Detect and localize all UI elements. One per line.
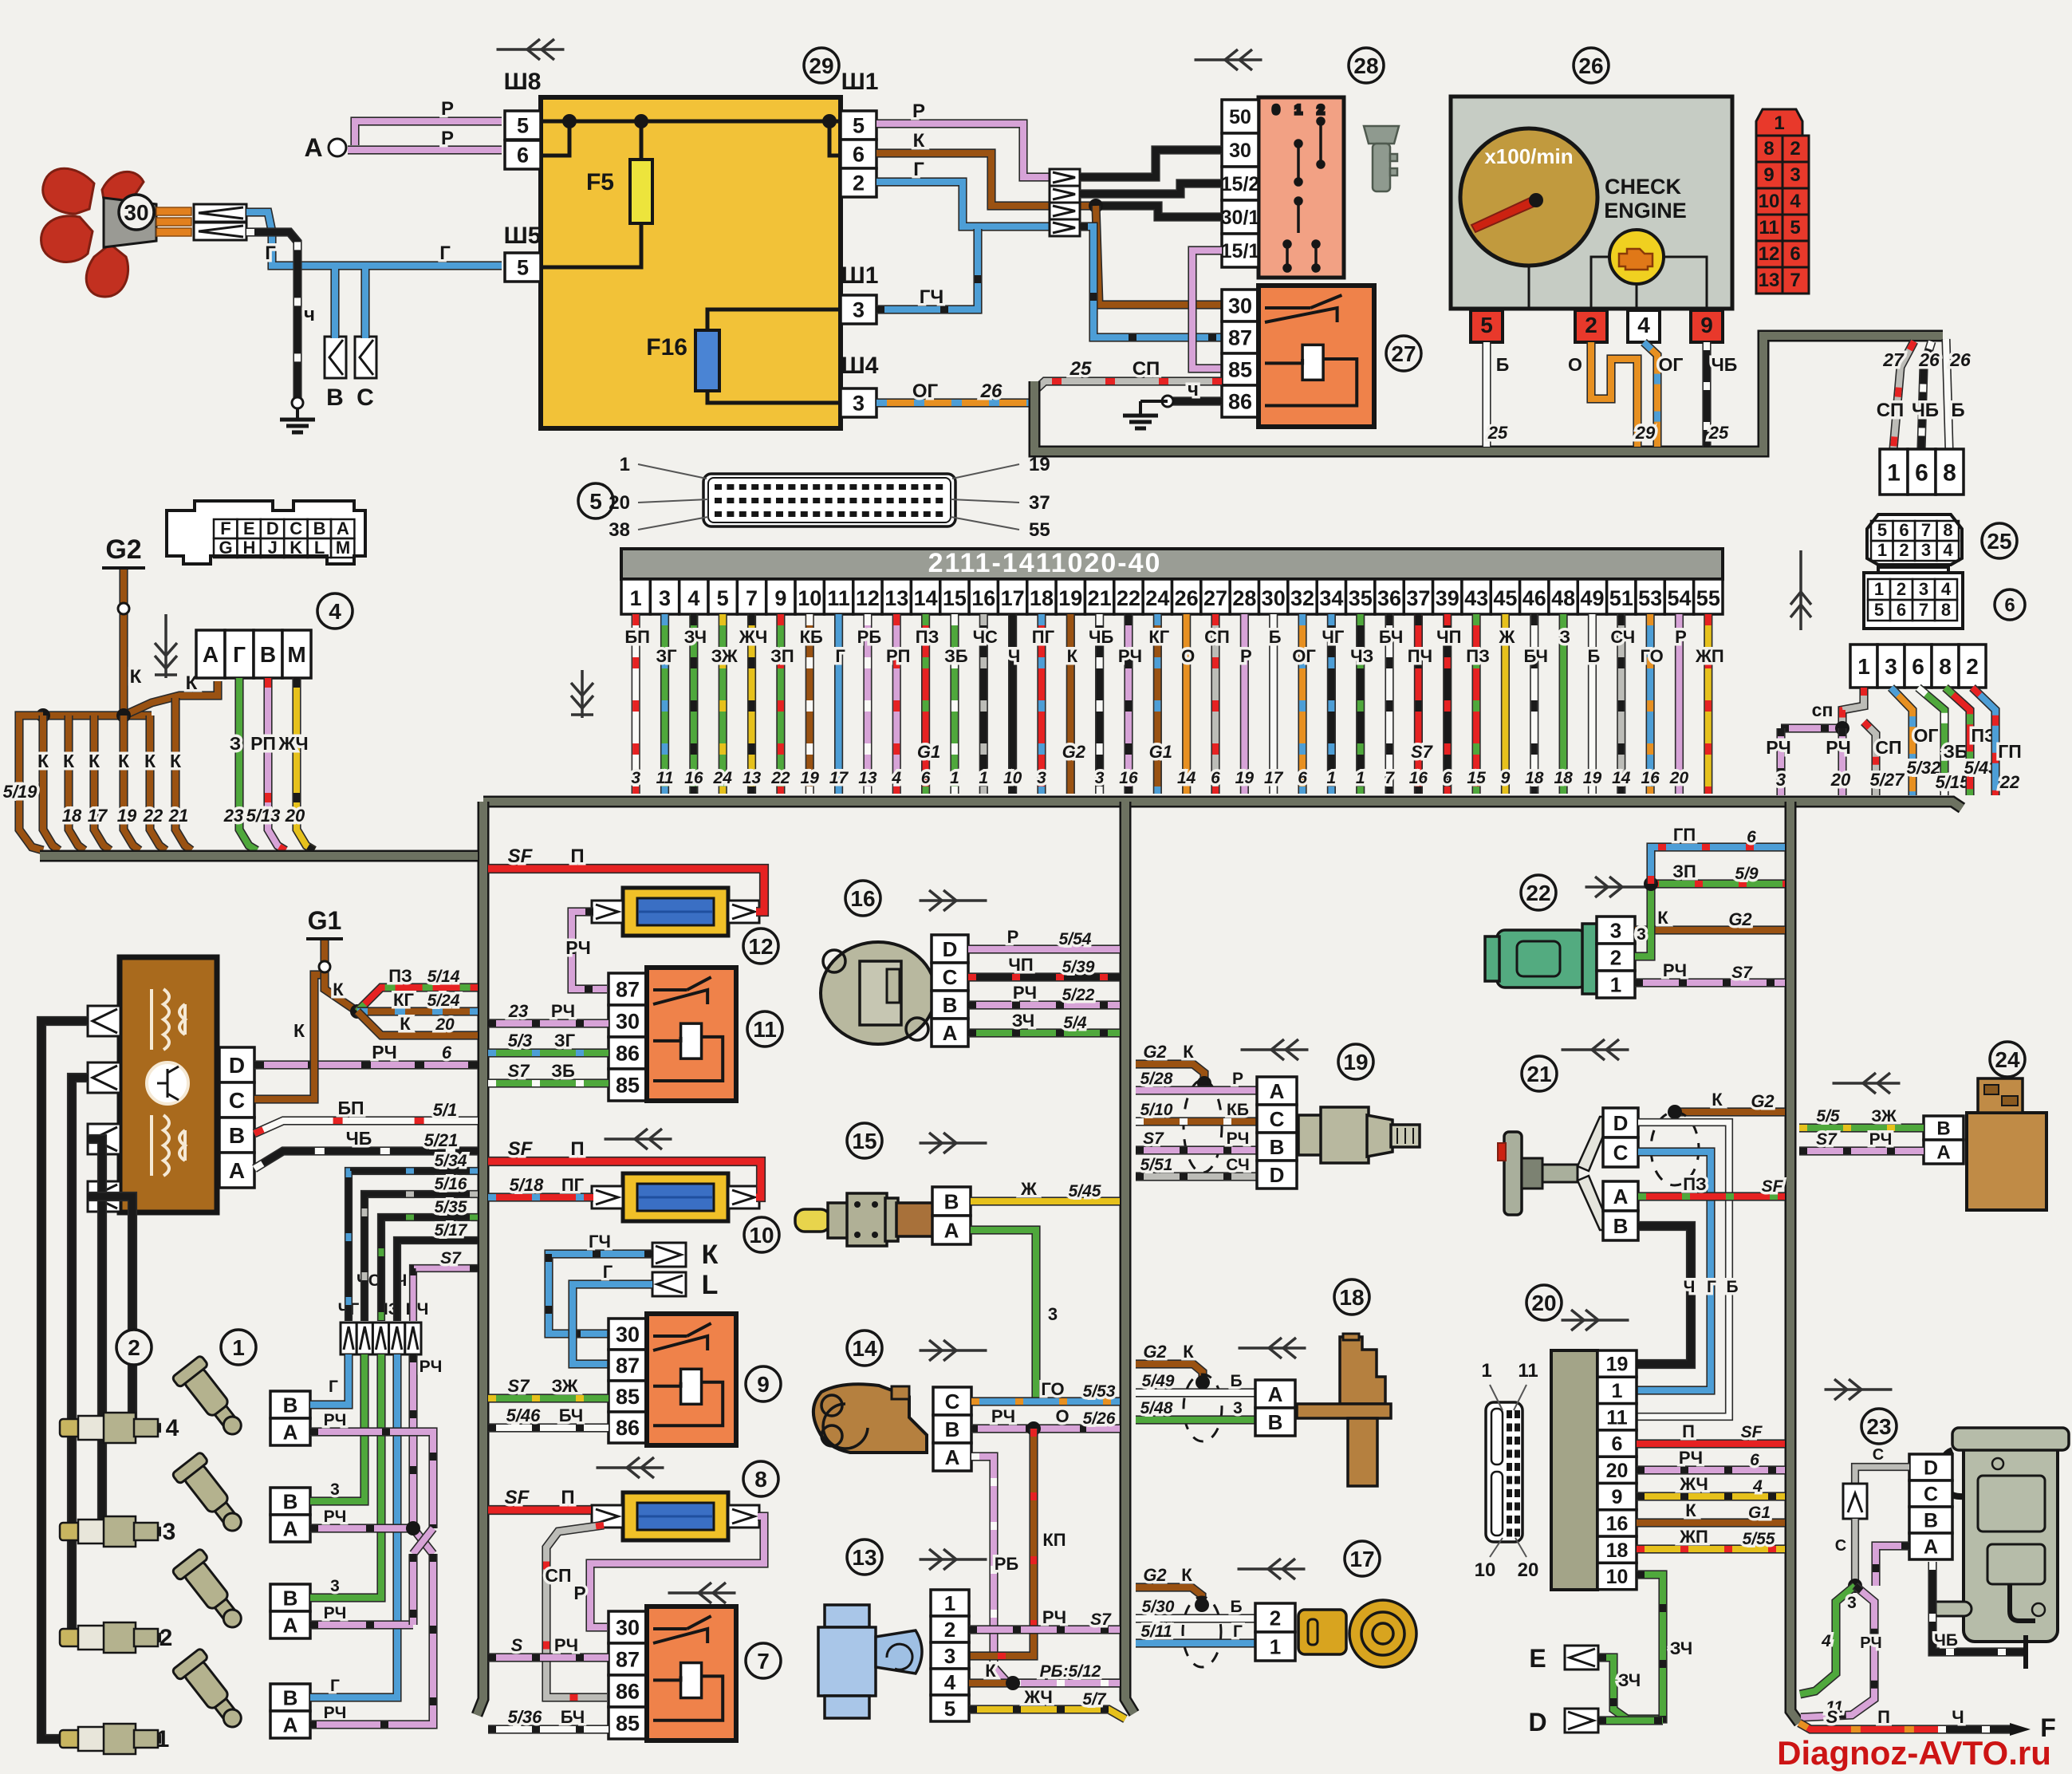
svg-text:Ж: Ж	[1498, 627, 1515, 647]
wire G from Sh1-2 to splice	[876, 182, 1050, 227]
svg-text:5/16: 5/16	[435, 1175, 467, 1193]
svg-text:5/48: 5/48	[1140, 1399, 1173, 1417]
fuse (10)	[592, 1173, 759, 1221]
svg-text:ЗЧ: ЗЧ	[1618, 1670, 1641, 1690]
svg-text:16: 16	[971, 586, 995, 610]
svg-text:16: 16	[1119, 769, 1138, 787]
svg-text:25: 25	[1487, 423, 1508, 443]
svg-text:D: D	[229, 1053, 245, 1078]
svg-text:ОГ: ОГ	[1659, 354, 1684, 375]
svg-text:30: 30	[124, 200, 148, 225]
wire O from cluster 2 (loop)	[1591, 342, 1637, 447]
harness arrow below relay 11	[605, 1129, 672, 1149]
svg-text:5/19: 5/19	[3, 782, 38, 802]
wire SP 27 to connector 1-6-8	[1893, 341, 1914, 449]
svg-text:3: 3	[330, 1480, 340, 1499]
svg-text:A: A	[337, 518, 349, 538]
svg-text:3: 3	[330, 1577, 340, 1595]
throttle position sensor (14) body	[813, 1384, 927, 1453]
svg-text:С: С	[1270, 1107, 1285, 1131]
svg-text:85: 85	[616, 1712, 640, 1736]
svg-text:3: 3	[1790, 164, 1800, 186]
svg-text:4: 4	[1943, 540, 1953, 560]
svg-text:Р: Р	[441, 128, 454, 149]
svg-text:К: К	[130, 666, 142, 688]
svg-text:27: 27	[1391, 341, 1416, 366]
svg-text:О: О	[1568, 354, 1582, 375]
divider bus vertical	[1125, 802, 1134, 1713]
diagnostic connector (20) body	[1551, 1350, 1597, 1590]
wire black fan ground (Ch)	[246, 232, 297, 403]
pin Sh8-5	[505, 111, 541, 140]
svg-text:30: 30	[616, 1010, 640, 1034]
ground-arrow symbol left of wire bundle	[571, 670, 593, 718]
svg-text:ПЗ: ПЗ	[388, 966, 412, 986]
wire K RB 5/12 from 13-4	[969, 1678, 1120, 1687]
harness arrow 16	[920, 890, 987, 911]
wire PZ 5/43 from X2-8	[1945, 688, 1970, 795]
ECU wire pin 16 (ЧС)	[979, 614, 988, 794]
wire 5/30 B to 17-2	[1136, 1614, 1255, 1622]
svg-text:3: 3	[1233, 1399, 1243, 1417]
svg-text:19: 19	[1058, 586, 1082, 610]
module 3 wire A ChB-5/21	[254, 1151, 478, 1169]
svg-text:Р: Р	[441, 98, 454, 120]
svg-text:ЖЧ: ЖЧ	[278, 733, 308, 754]
ECU connector pin lead labels	[638, 464, 1019, 530]
harness arrow 23	[1825, 1379, 1893, 1400]
svg-text:8: 8	[1943, 520, 1952, 540]
connector 4 (A G B M)	[196, 630, 311, 678]
svg-text:СП: СП	[545, 1565, 571, 1586]
svg-text:К: К	[985, 1661, 996, 1681]
svg-text:ЧГ: ЧГ	[1322, 627, 1344, 647]
svg-text:ЗП: ЗП	[1672, 861, 1696, 881]
svg-text:39: 39	[1436, 586, 1459, 610]
svg-text:3: 3	[1776, 770, 1786, 790]
svg-text:РЧ: РЧ	[1869, 1130, 1893, 1149]
wire GP 6	[1651, 847, 1785, 884]
label 8	[743, 1461, 778, 1496]
svg-text:5/3: 5/3	[508, 1031, 533, 1051]
harness bus top (around instrument cluster)	[1034, 336, 1943, 451]
internal bus of block 29	[541, 121, 841, 403]
svg-text:5: 5	[944, 1697, 955, 1721]
label 28	[1349, 48, 1384, 83]
svg-text:14: 14	[852, 1336, 877, 1361]
wire blue to B/C and Sh5-5 (G)	[246, 212, 502, 266]
svg-text:ЧП: ЧП	[1436, 627, 1461, 647]
svg-text:3: 3	[944, 1644, 955, 1668]
svg-text:П: П	[570, 1138, 584, 1160]
svg-text:15/2: 15/2	[1221, 173, 1260, 195]
svg-text:S: S	[1826, 1707, 1838, 1727]
svg-text:6: 6	[1443, 769, 1452, 787]
wire G blue from 21-C to 20-1	[1637, 1152, 1711, 1390]
svg-text:5: 5	[717, 586, 729, 610]
svg-text:2: 2	[128, 1335, 140, 1360]
svg-text:РБ: РБ	[995, 1554, 1019, 1574]
svg-text:7: 7	[757, 1649, 770, 1673]
EGR/canister valve (22) drawing	[1485, 924, 1597, 994]
svg-text:29: 29	[809, 53, 833, 78]
svg-text:11: 11	[827, 586, 850, 610]
svg-text:H: H	[242, 538, 255, 558]
cluster pin 5 (red)	[1471, 310, 1503, 342]
svg-text:1: 1	[1610, 972, 1621, 996]
svg-text:В: В	[260, 642, 276, 667]
svg-text:А: А	[1924, 1536, 1938, 1559]
screen ellipse 18	[1184, 1374, 1222, 1441]
svg-text:С: С	[1924, 1484, 1938, 1506]
ECU wire pin 14 (ПЗ)	[921, 614, 930, 794]
label 17	[1345, 1541, 1380, 1576]
label 23	[1861, 1409, 1897, 1444]
svg-text:К: К	[1067, 646, 1078, 666]
svg-text:26: 26	[980, 380, 1003, 402]
ECU wire pin 15 (ЗБ)	[950, 614, 959, 794]
cluster pin 2 (red)	[1575, 310, 1607, 342]
wire P from Sh1-5 to splice	[876, 124, 1050, 177]
svg-text:G2: G2	[1751, 1091, 1775, 1111]
svg-text:5: 5	[1877, 520, 1887, 540]
label 3	[152, 961, 187, 996]
svg-text:РЧ: РЧ	[1663, 960, 1687, 980]
svg-text:37: 37	[1406, 586, 1430, 610]
svg-text:П: П	[561, 1487, 574, 1508]
wire RCh from 23-A to bus	[1876, 1546, 1909, 1586]
svg-text:18: 18	[62, 806, 82, 826]
svg-text:К: К	[1712, 1090, 1723, 1110]
svg-text:ОГ: ОГ	[912, 380, 939, 402]
svg-text:РБ:5/12: РБ:5/12	[1040, 1662, 1101, 1681]
svg-text:21: 21	[1088, 586, 1112, 610]
harness arrow 20	[1562, 1310, 1629, 1330]
brown wire down to relay 27 pin 30	[1096, 206, 1222, 305]
svg-text:3: 3	[1847, 1594, 1857, 1612]
svg-text:5/39: 5/39	[1062, 958, 1095, 976]
pin Sh5-5	[505, 253, 541, 282]
svg-text:8: 8	[1941, 600, 1951, 620]
connection circle on ground wire	[292, 397, 303, 408]
label 20	[1526, 1285, 1562, 1320]
svg-text:Б: Б	[1230, 1372, 1242, 1390]
svg-text:РЧ: РЧ	[324, 1411, 347, 1429]
svg-text:Г: Г	[233, 642, 246, 667]
vertical arrow symbol	[1790, 550, 1811, 630]
harness arrow 17	[1238, 1559, 1306, 1579]
svg-text:С: С	[1613, 1141, 1629, 1165]
svg-text:А: А	[203, 642, 219, 667]
fuse F16	[646, 330, 719, 391]
svg-text:3: 3	[1885, 654, 1897, 679]
svg-text:M: M	[336, 538, 350, 558]
wire RCh 3 drop	[1776, 728, 1785, 795]
svg-text:Р: Р	[1675, 627, 1687, 647]
svg-text:24: 24	[1145, 586, 1169, 610]
label 24	[1990, 1042, 2025, 1077]
sensor 17 pins 2 1	[1255, 1603, 1295, 1661]
wire RCh 20 drop	[1838, 728, 1846, 795]
svg-text:Б: Б	[1496, 354, 1510, 375]
svg-text:5: 5	[1480, 313, 1493, 337]
svg-text:В: В	[283, 1586, 298, 1610]
svg-text:6: 6	[853, 143, 865, 167]
svg-text:S: S	[511, 1635, 523, 1655]
svg-text:F5: F5	[586, 169, 614, 195]
svg-text:10: 10	[1003, 769, 1022, 787]
svg-text:КГ: КГ	[393, 990, 414, 1010]
svg-text:ч: ч	[304, 304, 315, 325]
connector C	[355, 337, 376, 378]
svg-text:3: 3	[631, 769, 640, 787]
wire RP from 4-B	[268, 678, 286, 850]
svg-text:G1: G1	[1149, 742, 1172, 762]
svg-text:Ш4: Ш4	[841, 353, 879, 379]
svg-text:87: 87	[616, 1354, 640, 1378]
cluster internal wires	[1529, 257, 1707, 310]
svg-text:РЧ: РЧ	[324, 1704, 347, 1722]
injector 3	[171, 1452, 252, 1540]
svg-text:6: 6	[2004, 595, 2015, 617]
ECU wire pin 7 (ЖЧ)	[747, 614, 756, 794]
wire ZCh from D	[1598, 1716, 1663, 1725]
svg-text:СЧ: СЧ	[1610, 627, 1635, 647]
injector 1	[171, 1648, 252, 1737]
wire G to injector4 B	[310, 1354, 349, 1405]
connection circle 86	[1162, 396, 1173, 407]
svg-text:Diagnoz-AVTO.ru: Diagnoz-AVTO.ru	[1777, 1734, 2051, 1772]
wire ChP 5/39	[968, 972, 1120, 981]
svg-text:РЧ: РЧ	[565, 937, 591, 958]
svg-text:2: 2	[1317, 102, 1324, 117]
svg-text:7: 7	[746, 586, 758, 610]
svg-text:26: 26	[1918, 349, 1940, 370]
svg-text:А: А	[283, 1516, 298, 1540]
svg-text:13: 13	[884, 586, 908, 610]
diagnostic connector (20) pins	[1597, 1350, 1637, 1590]
svg-text:А: А	[304, 133, 322, 162]
black wire junction to 30/1	[1096, 206, 1222, 217]
svg-text:К: К	[1657, 908, 1668, 928]
ECU wire pin 3 (ЗГ)	[660, 614, 669, 794]
svg-text:37: 37	[1029, 492, 1050, 514]
spark plug 4	[60, 1413, 158, 1443]
valve 22 pins 3 2 1	[1597, 917, 1635, 998]
svg-text:ЗГ: ЗГ	[656, 646, 677, 666]
wires 5/34 5/16 5/35 5/17 S7 to injector connector	[349, 1171, 478, 1321]
svg-text:В: В	[945, 1417, 960, 1441]
svg-text:2: 2	[1585, 313, 1597, 337]
svg-text:6: 6	[1897, 600, 1906, 620]
svg-text:15/1: 15/1	[1221, 240, 1260, 262]
sensor 15 pins B A	[932, 1187, 971, 1244]
svg-text:S7: S7	[1731, 964, 1753, 982]
ECU wire pin 54 (Р)	[1675, 614, 1684, 794]
svg-text:ЗЧ: ЗЧ	[684, 627, 707, 647]
sensor 16 pins D C B A	[932, 935, 968, 1047]
svg-text:20: 20	[1669, 769, 1689, 787]
cluster red connector pin 1	[1756, 109, 1802, 136]
svg-text:49: 49	[1580, 586, 1604, 610]
svg-text:ЗЖ: ЗЖ	[711, 646, 738, 666]
svg-text:КП: КП	[1042, 1530, 1066, 1550]
svg-text:4: 4	[891, 769, 901, 787]
svg-text:ПЧ: ПЧ	[1408, 646, 1432, 666]
svg-text:12: 12	[748, 934, 773, 959]
mounting block (29) body	[541, 97, 841, 428]
svg-text:G2: G2	[1728, 909, 1752, 929]
svg-text:86: 86	[616, 1680, 640, 1704]
svg-text:G2: G2	[1143, 1565, 1167, 1585]
svg-text:4: 4	[1821, 1632, 1831, 1650]
brown K bus horizontal	[43, 711, 152, 719]
ECU wire pin 34 (ЧГ)	[1327, 614, 1336, 794]
black wire splice2 to 15/2	[1080, 183, 1222, 194]
svg-text:К: К	[333, 980, 344, 999]
ground wire Ch to relay 27 pin 86	[1168, 396, 1222, 405]
svg-text:5: 5	[589, 489, 602, 514]
svg-text:13: 13	[743, 769, 762, 787]
svg-text:2: 2	[1610, 945, 1621, 969]
svg-text:55: 55	[1696, 586, 1720, 610]
svg-text:ЗЧ: ЗЧ	[1012, 1011, 1034, 1031]
relay (27) pins 30,87,85,86	[1222, 290, 1259, 417]
svg-text:5/9: 5/9	[1735, 865, 1759, 883]
wire 23 RCh to relay11 30	[488, 1019, 609, 1027]
wire SF-P to fuse 8	[488, 1505, 591, 1515]
left panel bus vertical	[477, 802, 483, 1715]
wire R 5/54	[968, 944, 1120, 953]
cluster pin 4 (white)	[1628, 310, 1660, 342]
svg-text:25: 25	[1069, 358, 1092, 380]
svg-text:Г: Г	[439, 242, 451, 264]
svg-text:Г: Г	[913, 159, 924, 180]
svg-text:ОГ: ОГ	[1292, 646, 1316, 666]
svg-text:34: 34	[1319, 586, 1343, 610]
svg-text:SF: SF	[1741, 1423, 1763, 1441]
label 16	[845, 881, 880, 916]
ECU wire pin 48 (З)	[1559, 614, 1568, 794]
wire ZB 5/15 from X2-6	[1918, 688, 1944, 795]
svg-text:12: 12	[856, 586, 880, 610]
spark plug 2	[60, 1622, 158, 1653]
svg-text:10: 10	[1759, 191, 1780, 212]
wire 5/5 ZZh to 24-B	[1799, 1123, 1924, 1132]
label 10	[744, 1217, 779, 1252]
harness arrow near relay 7	[668, 1583, 736, 1603]
ECU wire pin 11 (Г)	[834, 614, 843, 794]
svg-text:16: 16	[684, 769, 703, 787]
svg-text:86: 86	[616, 1416, 640, 1440]
svg-text:30: 30	[616, 1323, 640, 1346]
svg-text:1: 1	[1857, 654, 1870, 679]
svg-text:11: 11	[656, 769, 674, 787]
ECU wire pin 43 (ПЗ)	[1471, 614, 1480, 794]
wire G L to relay9 87	[573, 1284, 652, 1364]
svg-text:26: 26	[1175, 586, 1199, 610]
blue wire from splice to relay 27 pin 87	[1080, 227, 1222, 337]
wire RCh-O 5/26	[971, 1424, 1120, 1433]
svg-text:4: 4	[1790, 191, 1801, 212]
wire C riser	[360, 269, 369, 338]
svg-text:23: 23	[508, 1001, 528, 1021]
svg-text:9: 9	[1501, 769, 1511, 787]
wire ZhCh from 4-M	[297, 678, 314, 850]
svg-text:SF: SF	[1762, 1177, 1784, 1196]
wire B 26 to connector 1-6-8	[1946, 339, 1949, 449]
ignition key icon	[1364, 126, 1399, 191]
svg-text:1: 1	[1327, 769, 1337, 787]
svg-text:А: А	[1613, 1185, 1629, 1208]
svg-text:5: 5	[1874, 600, 1884, 620]
svg-text:14: 14	[1177, 769, 1196, 787]
svg-text:Г: Г	[329, 1378, 338, 1396]
svg-text:В: В	[1936, 1118, 1950, 1140]
svg-text:БП: БП	[337, 1098, 364, 1118]
ECU wire pin 30 (Б)	[1269, 614, 1278, 794]
module 3 wire B BP-5/1	[254, 1121, 478, 1133]
wire S7 RCh to 19-B	[1136, 1145, 1257, 1154]
wire S P Ch to F	[1799, 1723, 1938, 1729]
svg-text:G2: G2	[1143, 1042, 1167, 1062]
svg-text:БЧ: БЧ	[559, 1405, 583, 1425]
svg-text:Г: Г	[1707, 1278, 1716, 1296]
svg-text:БП: БП	[624, 627, 650, 647]
cluster red connector grid 8-13 / 2-7	[1756, 136, 1809, 294]
ECU wire pin 5 (ЗЖ)	[719, 614, 727, 794]
svg-text:16: 16	[1641, 769, 1660, 787]
svg-text:18: 18	[1525, 769, 1544, 787]
svg-text:А: А	[283, 1420, 298, 1444]
wire R pink from fuse8 to relay7 30	[590, 1516, 764, 1627]
wire K G2 from 22-3	[1635, 925, 1785, 934]
svg-text:ЧБ: ЧБ	[1912, 400, 1939, 421]
svg-text:К: К	[702, 1240, 719, 1270]
fan connector (dual chevron)	[194, 204, 246, 222]
svg-text:5/5: 5/5	[1816, 1107, 1840, 1126]
svg-text:6: 6	[1899, 520, 1909, 540]
pins Sh1-5,6,2	[841, 111, 876, 197]
wire ChB from cluster 9 to bus	[1702, 342, 1711, 447]
svg-text:B: B	[313, 518, 326, 538]
svg-text:А: А	[1936, 1142, 1950, 1164]
label 26	[1574, 48, 1609, 83]
main harness bus horizontal	[483, 802, 1962, 808]
svg-text:СП: СП	[1133, 358, 1160, 380]
svg-text:О: О	[1055, 1406, 1069, 1426]
relay (7) pins 30,87,86,85	[609, 1611, 647, 1739]
svg-text:Р: Р	[1007, 927, 1019, 947]
wire RCh S7 from 22-1	[1635, 978, 1785, 987]
ECU wire pin 35 (ЧЗ)	[1356, 614, 1365, 794]
svg-text:7: 7	[1921, 520, 1931, 540]
svg-text:D: D	[1613, 1111, 1629, 1135]
svg-text:D: D	[943, 937, 958, 961]
ECU wire pin 4 (ЗЧ)	[689, 614, 698, 794]
wire B white from 21-D to 20-11	[1637, 1122, 1729, 1417]
G2 wire down	[119, 570, 128, 716]
svg-text:18: 18	[1030, 586, 1054, 610]
svg-text:РЧ: РЧ	[1013, 983, 1037, 1003]
junction dot K wire	[1089, 199, 1103, 213]
svg-text:27: 27	[1203, 586, 1227, 610]
connector E	[1565, 1646, 1598, 1670]
K wire drops to bus (5/19,18,17,19,22,21)	[19, 716, 43, 850]
ECU wire pin 51 (СЧ)	[1617, 614, 1625, 794]
svg-text:ГЧ: ГЧ	[589, 1232, 611, 1252]
svg-text:1: 1	[1270, 1634, 1281, 1658]
